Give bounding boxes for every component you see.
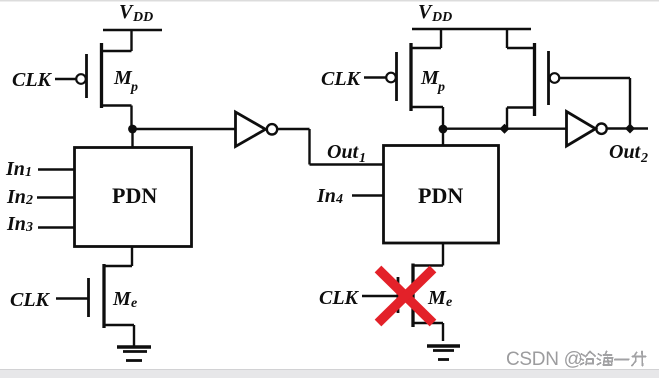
- svg-text:1: 1: [25, 165, 32, 180]
- wire node2 down to PDN2: [442, 129, 444, 145]
- svg-text:Out: Out: [327, 141, 360, 163]
- nmos Me2: [398, 264, 413, 328]
- svg-text:In: In: [316, 185, 336, 207]
- wire Me1 source to ground: [104, 325, 134, 346]
- label Mp1: [113, 67, 138, 95]
- PDN block 2: [384, 146, 499, 244]
- wire inverter1 output to Out1: [277, 129, 384, 165]
- label PDN2: [418, 183, 463, 208]
- svg-text:e: e: [446, 295, 452, 310]
- wire VDD to Mp1 source: [102, 30, 132, 51]
- glyph cang: [581, 352, 596, 365]
- PDN block 1: [75, 148, 192, 247]
- svg-text:Out: Out: [609, 141, 642, 163]
- pmos Mp2: [386, 43, 411, 111]
- label In1: [5, 158, 32, 180]
- label PDN1: [112, 183, 157, 208]
- svg-text:CLK: CLK: [12, 69, 53, 91]
- VDD rail 2: [412, 28, 531, 30]
- wire In1: [38, 168, 75, 170]
- label In3: [6, 213, 33, 235]
- svg-text:M: M: [427, 287, 447, 309]
- svg-text:PDN: PDN: [112, 183, 157, 208]
- junction keeper drain on node wire: [500, 124, 510, 134]
- svg-text:p: p: [437, 80, 445, 95]
- label Out1: [327, 141, 366, 166]
- wire PDN1 to Me1 drain: [104, 247, 132, 267]
- label Out2: [609, 141, 648, 166]
- wire In3: [38, 226, 75, 228]
- pmos keeper: [535, 43, 560, 116]
- wire CLK to Mp1 gate: [55, 78, 76, 80]
- svg-text:1: 1: [359, 151, 366, 166]
- ground stage1: [117, 347, 151, 361]
- label CLK bottom-left: [10, 289, 51, 311]
- svg-text:In: In: [6, 213, 26, 235]
- label Me2: [427, 287, 452, 310]
- label CLK top-left: [12, 69, 53, 91]
- label VDD2: [418, 1, 452, 25]
- svg-text:PDN: PDN: [418, 183, 463, 208]
- svg-text:2: 2: [640, 151, 648, 166]
- top hairline: [0, 0, 659, 2]
- wire CLK to Me2 gate: [362, 295, 398, 297]
- watermark CSDN: [506, 349, 646, 370]
- svg-text:p: p: [130, 80, 138, 95]
- pmos Mp1: [76, 43, 101, 108]
- wire PDN2 to Me2 drain: [413, 243, 443, 266]
- svg-text:CLK: CLK: [319, 287, 360, 309]
- svg-text:V: V: [119, 1, 134, 23]
- inverter U1: [236, 112, 278, 147]
- label In4: [316, 185, 343, 207]
- wire Mp1 drain to node: [102, 106, 132, 129]
- wire keeper gate feedback from Out2: [559, 78, 630, 128]
- red X over Me2 clock: [378, 269, 433, 323]
- label In2: [6, 186, 33, 208]
- ground stage2: [427, 346, 460, 360]
- wire node2 to inverter2: [443, 127, 566, 129]
- nmos Me1: [89, 264, 105, 328]
- node dot stage1 output: [128, 125, 137, 134]
- svg-text:M: M: [420, 67, 440, 89]
- svg-text:M: M: [113, 67, 133, 89]
- svg-text:e: e: [131, 296, 137, 311]
- label CLK bottom-right: [319, 287, 360, 309]
- glyph sheng: [632, 352, 646, 366]
- svg-text:V: V: [418, 1, 433, 23]
- wire Mp2 drain to node2: [411, 107, 443, 129]
- inverter U2: [567, 112, 607, 147]
- wire inverter2 output Out2: [607, 127, 648, 129]
- svg-text:4: 4: [335, 192, 343, 207]
- wire VDD to keeper source: [507, 29, 535, 48]
- svg-text:CLK: CLK: [10, 289, 51, 311]
- wire CLK to Me1 gate: [56, 297, 88, 299]
- svg-text:DD: DD: [132, 10, 153, 25]
- wire Me2 source to ground: [413, 323, 443, 341]
- label CLK top-right: [321, 68, 362, 90]
- wire In4: [352, 194, 384, 196]
- svg-text:2: 2: [25, 193, 33, 208]
- svg-text:CSDN @: CSDN @: [506, 349, 583, 370]
- glyph hai: [598, 352, 613, 366]
- wire VDD to Mp2 source: [411, 29, 441, 48]
- label VDD1: [119, 1, 153, 25]
- wire keeper drain to node: [507, 108, 535, 130]
- label Me1: [112, 288, 137, 311]
- bottom gray bar: [0, 370, 659, 378]
- wire node to inverter1: [133, 128, 236, 130]
- svg-text:M: M: [112, 288, 132, 310]
- wire node down to PDN1: [131, 129, 133, 147]
- svg-text:CLK: CLK: [321, 68, 362, 90]
- svg-text:In: In: [5, 158, 25, 180]
- wire CLK to Mp2 gate: [364, 76, 386, 78]
- svg-text:3: 3: [25, 220, 33, 235]
- VDD rail 1: [103, 29, 162, 31]
- junction dot Out2 feedback: [625, 124, 635, 134]
- svg-text:In: In: [6, 186, 26, 208]
- wire In2: [37, 196, 75, 198]
- svg-text:DD: DD: [431, 10, 452, 25]
- glyph yi: [615, 359, 629, 361]
- node dot stage2: [439, 125, 448, 134]
- label Mp2: [420, 67, 445, 95]
